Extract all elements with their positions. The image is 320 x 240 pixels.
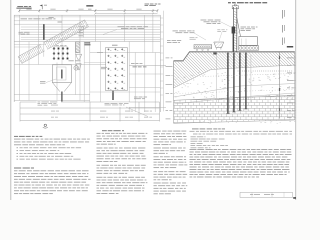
dark label mid-plan [85, 42, 91, 43]
notes column 2 lines [97, 132, 101, 135]
hatched column top-right of group A [76, 42, 80, 53]
notes column 4 heading [192, 128, 199, 129]
dark pile cap below ground [213, 53, 216, 55]
right elevation marks [287, 57, 293, 60]
wall parallel lines [21, 26, 161, 28]
section right edge [294, 52, 296, 120]
notes column 2 heading [102, 130, 107, 131]
manhole circle [74, 66, 79, 71]
right margin rotated labels [282, 10, 285, 19]
pile group A symbols [53, 47, 55, 59]
plan left extra horizontals [14, 44, 46, 46]
notes column 1 heading B [14, 168, 21, 169]
hopper [214, 42, 224, 48]
notes column 1 heading A [14, 136, 18, 137]
pit inner dark bar [61, 70, 62, 79]
stair / ramp diagonal hatched band [18, 19, 89, 63]
notes column 4 short list [191, 135, 196, 138]
dark elevation label top-right [287, 46, 293, 48]
section mark symbol below table [44, 124, 46, 126]
second funnel below hatched column [76, 64, 81, 70]
table cell marks [51, 104, 58, 107]
notes column 4 first item [190, 130, 195, 133]
mast top pulley [232, 6, 238, 9]
left small elevation labels [19, 31, 23, 34]
frame left border [10, 0, 12, 200]
pile group B border [106, 48, 128, 91]
plan title label top-left [17, 5, 23, 8]
machine body [239, 37, 257, 46]
left crawler machine [194, 45, 212, 51]
speckles below brick [236, 121, 237, 123]
boundary label mid [133, 65, 137, 68]
section title [228, 2, 231, 3]
hammer carriage [232, 27, 236, 34]
scaffold leader text [190, 36, 195, 39]
layer boundary lines [174, 84, 295, 98]
brick top boundary [174, 95, 295, 100]
notes column 3 lines [154, 130, 161, 133]
hopper leader text [217, 28, 220, 31]
section left small labels [166, 57, 170, 60]
pit structure rect [52, 65, 71, 83]
notes column 4 main paragraph [190, 148, 197, 151]
pit outlet dark bar [61, 92, 62, 102]
row text existing works [21, 17, 28, 20]
thin layer vertical ticks [237, 70, 239, 71]
plan main title [86, 5, 93, 6]
bottom right title strip [240, 192, 293, 197]
machine crawler [239, 46, 259, 51]
leader text above annotation [134, 96, 138, 99]
dark wall bar [43, 24, 45, 40]
funnel below hatched column [76, 54, 82, 59]
dimension numbers [26, 8, 31, 11]
pile under hammer [233, 34, 235, 52]
top right small text [145, 3, 150, 6]
page number mark [293, 197, 296, 199]
pile group A dimension text [56, 44, 59, 47]
leader text left side [173, 30, 178, 33]
notes column 1 paragraph B [14, 169, 18, 172]
table annotation box 2 [104, 102, 131, 107]
leader text left of mast [201, 19, 207, 22]
pit funnel [52, 83, 71, 92]
leader text right of mast [241, 26, 247, 29]
second dimension line [95, 13, 157, 15]
pile group A leader text [69, 59, 74, 62]
elevation label left of group B [101, 66, 107, 69]
pile mast [233, 7, 235, 52]
plan lower horizontals [90, 52, 161, 54]
notes column 1 bullet list A [17, 146, 19, 149]
borehole column right [279, 52, 281, 118]
plan vertical lines lower [18, 42, 20, 101]
fill layer hatched wedge [174, 52, 295, 88]
brick bottom boundary [174, 120, 295, 123]
frame right border [295, 0, 297, 200]
table annotation box 1 [37, 101, 62, 106]
plan bottom horizontal y92 [90, 91, 160, 93]
utility leader text mid plan [118, 25, 125, 28]
ground line [174, 52, 295, 61]
section left edge [173, 61, 175, 124]
pit leader text [40, 80, 46, 83]
table grid [20, 101, 160, 103]
group B bottom dark tick [112, 91, 113, 100]
top dimension line [19, 10, 157, 12]
notes column 1 paragraph A [14, 138, 21, 141]
leader text far left of section [167, 39, 171, 42]
dim stack right of stair [79, 26, 84, 29]
benchmark flag symbol [41, 5, 43, 10]
narrow ladder rungs right of plan [160, 17, 163, 19]
scattered soil dashes [269, 76, 270, 78]
page background [0, 0, 300, 200]
underground piles [227, 53, 228, 114]
plan vertical grid lines upper [18, 15, 20, 41]
plan upper rows horizontal lines [14, 14, 161, 16]
mid horizontal y62.5 [84, 62, 106, 64]
dotted boundary rows mid zone [200, 74, 295, 77]
pile group B symbols [107, 48, 109, 50]
plan-section divider vertical [162, 11, 164, 112]
